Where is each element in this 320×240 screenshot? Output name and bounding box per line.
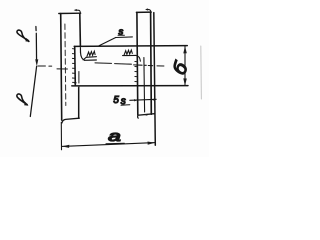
faint scan artifact [200, 46, 203, 99]
left bar hidden inner line [64, 24, 67, 106]
left bar right edge above plate [79, 13, 82, 46]
right bar top edge [136, 11, 151, 13]
arrowhead down at axis [35, 59, 38, 66]
cover plate bottom edge (extends to b dim) [72, 85, 188, 87]
label l lower (weld length) [17, 94, 27, 105]
left bar right edge hidden in plate + weld corner curve [79, 48, 81, 53]
left bar bottom edge with hook [62, 118, 79, 123]
right bar top arrow curl [147, 9, 151, 12]
label l upper (weld length) [17, 30, 29, 41]
cover plate top edge (extends to b dim) [74, 45, 187, 48]
svg-text:a: a [108, 128, 120, 144]
weld ticks left seam [72, 49, 74, 83]
dimension a [60, 122, 62, 150]
dimension b vertical line [184, 47, 186, 86]
weld symbol zigzag right [124, 50, 132, 55]
axis dash-dot left [38, 65, 52, 67]
left bar left edge [61, 14, 62, 121]
dimension line l lower segment [30, 66, 36, 116]
cover plate left edge (weld seam) [74, 46, 77, 85]
left bar right edge below plate [78, 88, 80, 119]
right outer strip edge (a dim extension) [154, 13, 156, 146]
weld ticks right seam [135, 62, 137, 82]
right bar right edge [150, 12, 153, 114]
svg-text:б: б [168, 58, 193, 79]
right bar hidden inner line [143, 58, 146, 113]
right bar left edge [136, 12, 139, 114]
dimension line l upper segment [35, 27, 38, 63]
corner arrow mark at plate bottom-left [74, 82, 77, 85]
right bar bottom edge with hook [138, 114, 155, 118]
left bar top arrow curl [75, 10, 80, 13]
svg-text:5: 5 [113, 95, 119, 106]
axis dash-dot across joint [57, 68, 67, 70]
weld symbol zigzag left [87, 51, 95, 56]
left bar top edge [59, 12, 81, 14]
